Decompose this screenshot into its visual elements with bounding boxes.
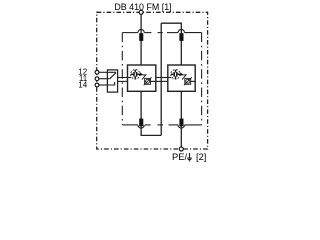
linkage hop arc under F4 xyxy=(178,125,184,128)
wire: terminal 12 to S1 xyxy=(99,71,116,73)
FM linkage right vertical (dash-dot) xyxy=(201,33,203,125)
svg-text:PE/: PE/ xyxy=(172,151,188,162)
wire: module 1 bottom to W2 xyxy=(141,91,161,135)
terminal 12 (circle on frame) xyxy=(95,70,99,74)
svg-text:14: 14 xyxy=(78,80,87,89)
label 12 xyxy=(78,68,87,77)
terminal 2 PE (circle on bottom frame) xyxy=(179,147,183,151)
changeover contact (NC arm 11-12, NO 14) in S1 xyxy=(110,73,116,85)
wire: U2 left lead to spark gap xyxy=(168,77,171,79)
linkage: S1 to module U1 lower xyxy=(118,80,128,82)
linkage hop arc over F2 xyxy=(178,29,184,32)
label 11 xyxy=(79,74,88,83)
wire: U1 lower lead to right edge xyxy=(151,80,156,82)
wire W2 (vertical link between modules) xyxy=(160,23,162,135)
linkage: S1 to module U1 upper xyxy=(118,77,128,79)
disconnector F3 (thermal disconnect, bottom of module 1) xyxy=(139,119,143,127)
wire: U1 left lead to spark gap xyxy=(128,77,132,79)
label PE / xyxy=(172,151,188,162)
surge arrow (lightning bolt into G1) in U1 xyxy=(139,72,146,79)
terminal 14 (circle on frame) xyxy=(95,83,99,87)
wire: lower connection U1 right to U2 left xyxy=(156,80,168,82)
disconnector F4 (thermal disconnect, bottom of module 2) xyxy=(179,119,183,127)
spark gap module U1 (box) xyxy=(128,65,156,91)
linkage hop arc under F3 xyxy=(138,125,144,128)
FM linkage left vertical (dash-dot) xyxy=(121,33,123,125)
wire: terminal 14 to S1 xyxy=(99,84,110,86)
disconnector F2 (thermal disconnect, top of module 2) xyxy=(179,33,183,41)
disconnector F1 (thermal disconnect, top of module 1) xyxy=(139,33,143,41)
wire: U2 lower lead to right edge xyxy=(191,80,196,82)
wire: module 2 bottom to PE terminal xyxy=(180,91,182,147)
arc-chamber symbol (square with crossed circle) in U1 xyxy=(144,77,152,85)
surge arrow (lightning bolt into G2) in U2 xyxy=(179,72,186,79)
FM linkage bottom line (dash-dot mechanical coupling) xyxy=(122,124,201,126)
FM remote contact S1 (changeover switch box) xyxy=(107,70,117,92)
terminal 1 (top, on frame) xyxy=(139,10,143,14)
linkage hop arc over F1 xyxy=(138,29,144,32)
wire: bracket from node between modules to module 2 top xyxy=(161,23,181,65)
terminal 11 (circle on frame) xyxy=(95,77,99,81)
label DB 410 FM [1] xyxy=(114,2,171,12)
label [2] xyxy=(196,152,206,162)
svg-text:DB 410 FM [1]: DB 410 FM [1] xyxy=(114,2,171,12)
spark gap G1 (dashed circle with electrodes) in U1 xyxy=(131,70,140,79)
wire: upper connection U1 right to U2 left xyxy=(156,77,168,79)
ground symbol xyxy=(187,153,192,161)
wire: terminal 11 to S1 common xyxy=(99,78,110,80)
svg-text:[2]: [2] xyxy=(196,152,206,162)
spark gap module U2 (box) xyxy=(168,65,195,91)
enclosure frame (dash-dot device boundary) xyxy=(97,12,208,149)
FM linkage top line (dash-dot mechanical coupling) xyxy=(122,32,201,34)
spark gap G2 (dashed circle with electrodes) in U2 xyxy=(171,70,180,79)
wire: terminal 1 down to module 1 top xyxy=(140,14,142,65)
label 14 xyxy=(78,80,87,89)
arc-chamber symbol (square with crossed circle) in U2 xyxy=(184,77,192,85)
